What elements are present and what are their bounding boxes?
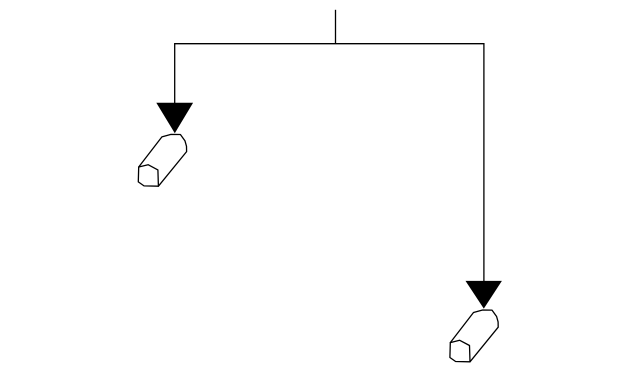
arrowhead right <box>466 281 502 309</box>
top stub wire <box>335 10 337 44</box>
arrowhead left <box>156 103 193 133</box>
left prism body outline <box>138 134 186 186</box>
right prism body outline <box>450 310 498 362</box>
left prism near-face rim <box>139 165 159 187</box>
wire: left branch (corner at 174.7,43.7) horizontal bus and right branch <box>175 44 484 282</box>
right prism near-face rim <box>450 340 470 362</box>
